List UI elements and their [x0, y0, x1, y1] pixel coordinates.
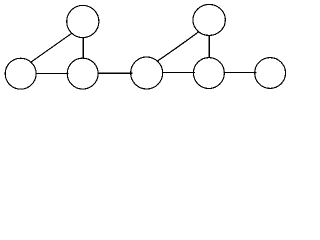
- node A (top-left circle): [67, 5, 99, 37]
- wire edge D-F (horizontal): [147, 72, 209, 74]
- node G (far-right circle): [255, 58, 286, 89]
- wire stub where D-F crosses F border: [193, 72, 195, 74]
- wire edge A-C (left vertical): [82, 22, 84, 74]
- wire edge B-C (horizontal): [21, 72, 83, 74]
- node F (lower-right circle): [193, 58, 224, 89]
- wire edge F-G (horizontal): [209, 71, 270, 73]
- wire edge D-E (right diagonal): [152, 28, 204, 65]
- wire stub where B-C crosses C border: [66, 72, 68, 74]
- wire edge C-D (horizontal): [83, 72, 147, 74]
- node E (top-right circle): [193, 4, 225, 35]
- wire stub where F-G crosses G border: [254, 71, 257, 73]
- wire edge B-A (left diagonal): [25, 29, 78, 66]
- wire stub where C-D crosses D border: [130, 72, 132, 74]
- node C (lower-left circle): [67, 58, 98, 89]
- node B (far-left circle): [5, 58, 36, 89]
- wire edge E-F (right vertical): [208, 20, 210, 73]
- node D (middle circle): [131, 57, 163, 89]
